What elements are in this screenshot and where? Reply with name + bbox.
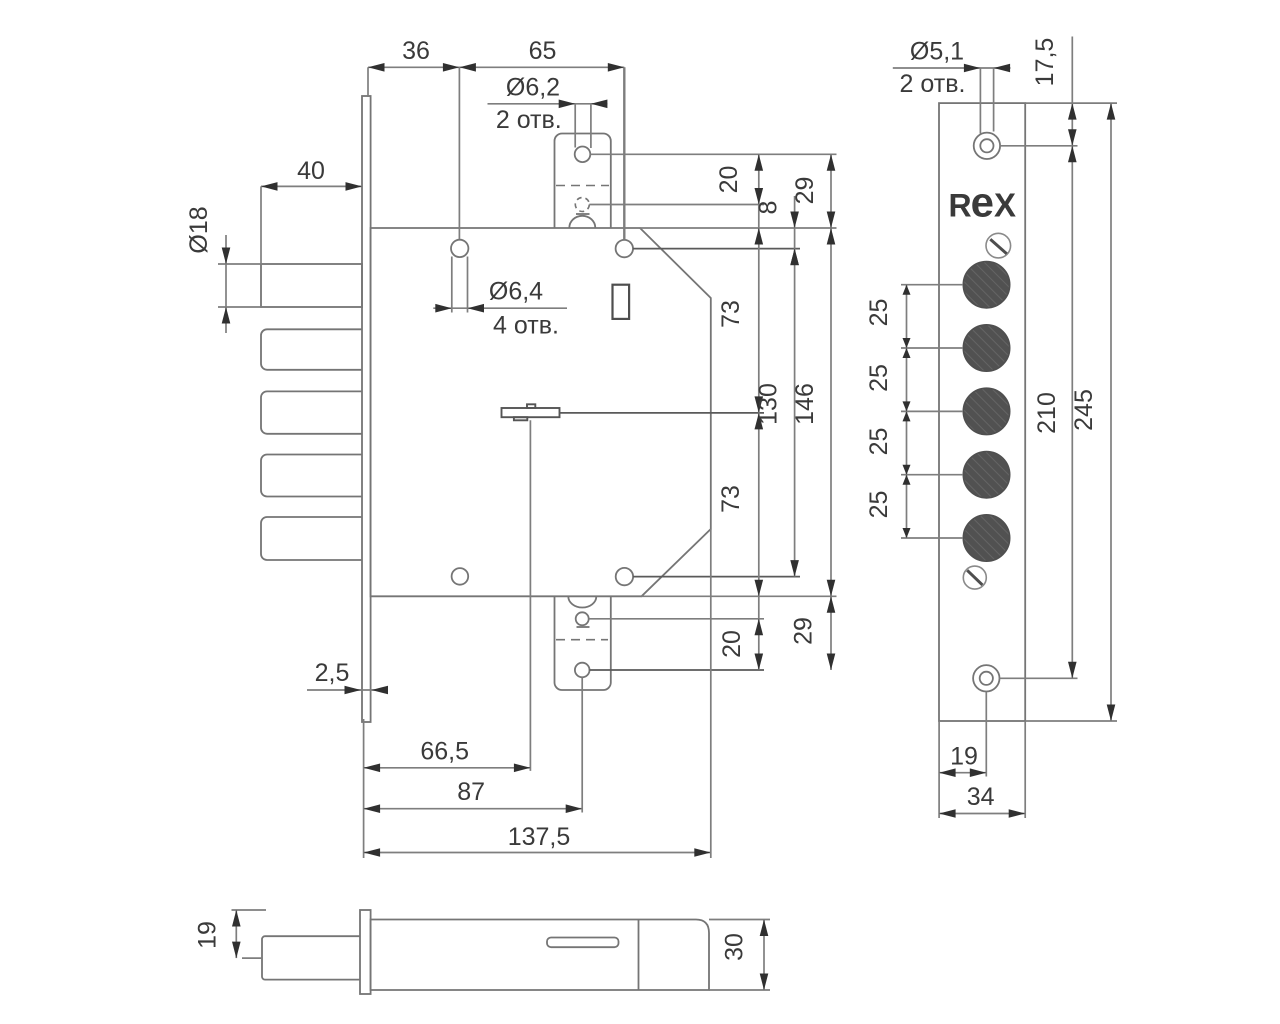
- svg-text:25: 25: [865, 299, 893, 327]
- dim Ø6,4 arrows: [435, 304, 452, 313]
- leader from top-right fixing hole: [633, 248, 800, 250]
- leader from top cap pin: [589, 204, 764, 206]
- top screw hole Ø5,1: [980, 139, 993, 152]
- dim 40 extension: [260, 186, 262, 263]
- svg-text:2 отв.: 2 отв.: [496, 106, 562, 134]
- svg-text:73: 73: [717, 485, 745, 513]
- side view handle slot: [547, 938, 619, 948]
- dim 40 arrows: [261, 182, 278, 191]
- svg-text:19: 19: [950, 743, 978, 771]
- dim 34 arrows: [939, 809, 956, 818]
- plate bottom extension: [1025, 720, 1117, 722]
- bottom cap pin chord: [577, 626, 590, 628]
- svg-text:245: 245: [1070, 389, 1098, 431]
- svg-text:36: 36: [402, 37, 430, 65]
- side view body: [371, 920, 709, 991]
- leader from top cap hole: [590, 153, 836, 155]
- bottom latch cap (rounded): [555, 596, 611, 690]
- dim Ø18 arrows: [222, 248, 231, 265]
- arrows 20 bottom: [755, 619, 764, 636]
- bottom cap mounting hole Ø6.2: [575, 663, 590, 678]
- dim 19 line: [235, 910, 237, 958]
- svg-text:Ø18: Ø18: [185, 206, 213, 253]
- leader from bottom-right fixing hole: [633, 576, 800, 578]
- dim line 20/73/73/20: [758, 154, 760, 670]
- dim 66,5 arrows: [364, 764, 381, 773]
- dim 34 line: [939, 813, 1025, 815]
- leader from bottom cap pin: [589, 618, 764, 620]
- dim 137,5 line: [364, 852, 711, 854]
- dim Ø5,1 line: [893, 67, 1011, 69]
- arrows 17,5: [1068, 103, 1077, 120]
- top cap hidden hole (dashed): [575, 198, 589, 212]
- deadbolt 4: [261, 455, 362, 497]
- dim 19 plate extension: [985, 692, 987, 777]
- svg-text:87: 87: [457, 778, 485, 806]
- dim Ø6,2 arrows: [559, 100, 576, 109]
- svg-text:25: 25: [865, 364, 893, 392]
- arrows 29 bottom: [827, 596, 836, 613]
- faceplate (front view, 2.5 mm strip): [362, 96, 371, 722]
- svg-text:130: 130: [755, 383, 783, 425]
- body top edge extension: [640, 227, 837, 229]
- arrows 73 lower: [755, 413, 764, 430]
- svg-text:Ø5,1: Ø5,1: [910, 38, 964, 66]
- leader from key cam: [560, 412, 765, 414]
- top cap mounting hole Ø6.2: [575, 147, 591, 163]
- fixing hole top-left Ø6.4: [451, 240, 468, 257]
- deadbolt 1 (round bolt Ø18): [261, 264, 362, 307]
- side view partition line: [638, 920, 640, 991]
- svg-text:2,5: 2,5: [315, 659, 350, 687]
- lock body outline with chamfered right corners: [371, 228, 711, 596]
- body bottom edge extension: [642, 595, 837, 597]
- dim 66,5 line: [364, 767, 531, 769]
- svg-text:2 отв.: 2 отв.: [900, 70, 966, 98]
- dim Ø6,4 extensions: [451, 257, 453, 313]
- dim 137,5 extension: [710, 529, 712, 858]
- arrows 146: [827, 228, 836, 245]
- dim 19 arrows: [232, 910, 241, 927]
- svg-text:137,5: 137,5: [508, 823, 571, 851]
- dim Ø6,2 extensions: [574, 104, 576, 148]
- dim line 8/130: [794, 196, 796, 577]
- top cap pin chord: [576, 213, 590, 215]
- dim 36 extension left: [367, 67, 369, 97]
- bottom screw hole Ø5,1: [980, 672, 993, 685]
- dim line 245: [1110, 103, 1112, 721]
- fixing hole top-right Ø6.4: [616, 240, 633, 257]
- dim 40 line: [261, 185, 362, 187]
- bottom cap pin circle: [576, 612, 589, 625]
- leader bolt3: [901, 410, 963, 412]
- top latch bow arc: [569, 216, 595, 228]
- arrows 130: [790, 249, 799, 266]
- dim 65 extension right: [623, 67, 625, 239]
- dim Ø5,1 arrows: [964, 64, 981, 73]
- leader bolt5: [901, 537, 963, 539]
- dim 87 extension: [581, 678, 583, 813]
- arrows 20 top: [755, 154, 764, 171]
- svg-text:73: 73: [717, 300, 745, 328]
- keyhole centreline down: [529, 420, 531, 771]
- bottom slotted screw: [963, 566, 986, 589]
- arrows 29 top: [827, 154, 836, 171]
- faceplate front view: [939, 103, 1025, 721]
- svg-text:8: 8: [755, 201, 783, 215]
- svg-text:29: 29: [791, 177, 819, 205]
- arrows 25 x4: [903, 285, 911, 295]
- rectangular slot in body: [613, 285, 630, 319]
- dim line 25 column: [906, 285, 908, 538]
- svg-text:20: 20: [718, 630, 746, 658]
- fixing hole bottom-left Ø6.4: [452, 568, 469, 585]
- dim 87 arrows: [364, 804, 381, 813]
- svg-text:66,5: 66,5: [420, 738, 469, 766]
- leader bolt2: [901, 347, 963, 349]
- svg-text:34: 34: [967, 783, 995, 811]
- bolt circle 2: [963, 325, 1009, 371]
- bolt circle 3: [963, 388, 1009, 434]
- side view faceplate end: [360, 910, 371, 994]
- bolt circle 4: [963, 452, 1009, 498]
- deadbolt 2: [261, 329, 362, 370]
- arrows 210: [1068, 146, 1077, 163]
- svg-text:40: 40: [297, 157, 325, 185]
- top screw hole countersink: [974, 133, 1000, 159]
- plate top extension: [1025, 102, 1117, 104]
- svg-text:146: 146: [791, 383, 819, 425]
- svg-text:20: 20: [715, 166, 743, 194]
- arrows 8 (outside): [790, 212, 799, 229]
- bottom cap dashed split line: [556, 639, 608, 641]
- dim Ø5,1 extensions: [979, 68, 981, 134]
- dim line 17,5/210: [1071, 37, 1073, 679]
- dim Ø6,4 line: [433, 307, 567, 309]
- svg-text:25: 25: [865, 428, 893, 456]
- svg-text:4 отв.: 4 отв.: [493, 312, 559, 340]
- dim 19 plate line: [939, 772, 986, 774]
- leader bolt4: [901, 474, 963, 476]
- dim 30 line: [763, 920, 765, 991]
- dim Ø6,2 line: [488, 103, 608, 105]
- plate left edge extension: [938, 721, 940, 818]
- dim Ø18 line: [225, 235, 227, 333]
- svg-text:19: 19: [194, 921, 222, 949]
- key cylinder cam (T shape): [502, 404, 560, 420]
- bottom latch bow arc: [568, 597, 596, 608]
- leader bottom screw: [1000, 677, 1078, 679]
- svg-text:30: 30: [721, 933, 749, 961]
- arrows 73 upper: [755, 228, 764, 245]
- dim 19 plate arrows: [939, 768, 956, 777]
- svg-text:25: 25: [865, 491, 893, 519]
- dim 30 extensions: [709, 919, 770, 921]
- deadbolt 3: [261, 391, 362, 433]
- leader bolt1: [901, 284, 963, 286]
- dim 87 line: [364, 808, 583, 810]
- bottom screw hole countersink: [973, 665, 999, 691]
- side view deadbolt: [262, 936, 360, 979]
- dim line 29/146/29: [830, 154, 832, 670]
- arrows 245: [1107, 103, 1116, 120]
- svg-text:65: 65: [529, 37, 557, 65]
- dim 19 extensions: [232, 909, 267, 911]
- dim 36-65 shared extension: [458, 67, 460, 239]
- fixing hole bottom-right Ø6.4: [616, 568, 633, 585]
- svg-text:Ø6,2: Ø6,2: [506, 74, 560, 102]
- top latch cap (rounded): [555, 134, 611, 229]
- deadbolt 5: [261, 517, 362, 560]
- dim 137,5 arrows: [364, 848, 381, 857]
- left extension line: [363, 719, 365, 858]
- top slotted screw: [986, 233, 1011, 258]
- bolt circle 1: [963, 262, 1009, 308]
- bolt circle 5: [963, 515, 1009, 561]
- top cap dashed split line: [556, 185, 609, 187]
- dim 36-65 arrows: [368, 63, 385, 72]
- svg-text:29: 29: [790, 617, 818, 645]
- dim Ø18 extensions: [218, 263, 262, 265]
- svg-text:Ø6,4: Ø6,4: [489, 278, 543, 306]
- svg-text:17,5: 17,5: [1031, 38, 1059, 87]
- leader top screw: [1000, 145, 1077, 147]
- svg-text:210: 210: [1033, 392, 1061, 434]
- dim 36-65 line: [368, 66, 624, 68]
- dim 2,5 leader: [307, 689, 386, 691]
- plate right edge extension: [1024, 721, 1026, 818]
- leader from bottom cap hole: [590, 669, 765, 671]
- dim 30 arrows: [760, 920, 769, 937]
